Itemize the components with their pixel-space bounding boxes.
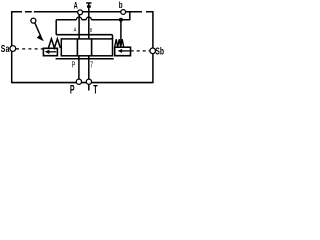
svg-text:A: A: [74, 0, 78, 11]
svg-text:P: P: [70, 84, 75, 95]
svg-text:P: P: [72, 61, 76, 69]
svg-text:b: b: [119, 0, 123, 10]
svg-text:Sa: Sa: [1, 43, 10, 55]
svg-text:B: B: [90, 27, 92, 33]
svg-text:Sb: Sb: [155, 45, 164, 57]
svg-text:7: 7: [90, 61, 93, 69]
svg-text:T: T: [93, 84, 97, 95]
